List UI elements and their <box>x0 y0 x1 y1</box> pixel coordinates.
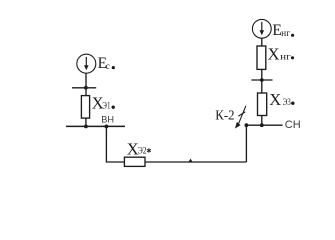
junction dot on bus (feeder) <box>105 125 109 129</box>
node tick (right) <box>251 79 272 81</box>
node tick (left) <box>72 87 96 89</box>
svg-text:К-2: К-2 <box>215 109 234 124</box>
junction mark on wire <box>188 159 193 163</box>
junction dot under X_E3 <box>260 123 264 127</box>
wire source to X_NG <box>261 38 263 46</box>
label X_E1* <box>92 94 115 113</box>
wire X_E2 to SN branch <box>145 161 246 163</box>
svg-text:нг: нг <box>281 28 290 38</box>
reactance X_E1 <box>81 96 89 119</box>
bus SN <box>246 124 283 126</box>
svg-text:Э2: Э2 <box>138 146 147 156</box>
wire X_E1 to bus VN <box>85 118 87 126</box>
junction dot <box>84 86 88 90</box>
junction dot <box>260 78 264 82</box>
reactance X_NG <box>257 46 266 69</box>
svg-text:Х: Х <box>269 90 281 109</box>
wire bus VN down and right to X_E2 <box>106 126 124 162</box>
bus VN <box>66 125 125 127</box>
svg-text:ВН: ВН <box>101 115 114 125</box>
svg-text:с: с <box>106 62 110 72</box>
label X_E3* <box>269 90 294 109</box>
reactance X_E3 <box>258 93 267 116</box>
wire X_E3 to bus SN <box>261 116 263 126</box>
source E_NG <box>252 19 271 38</box>
label E_C* <box>98 55 115 72</box>
svg-text:Х: Х <box>268 45 280 64</box>
source E_C <box>77 54 96 73</box>
svg-text:СН: СН <box>285 119 301 131</box>
wire up to bus SN <box>245 125 247 162</box>
reactance X_E2 <box>124 157 145 166</box>
wire source to X_E1 <box>85 73 87 96</box>
junction dot on bus <box>84 125 88 129</box>
svg-text:Э1: Э1 <box>102 101 110 111</box>
junction dot at corner <box>245 123 249 127</box>
svg-text:Э3: Э3 <box>283 97 292 107</box>
svg-text:нг: нг <box>280 52 291 62</box>
label X_E2* <box>127 139 151 158</box>
label E_NG* <box>272 22 294 39</box>
label X_NG* <box>268 45 295 64</box>
wire X_NG to X_E3 <box>261 69 263 93</box>
short-circuit point K-2 <box>215 106 246 129</box>
